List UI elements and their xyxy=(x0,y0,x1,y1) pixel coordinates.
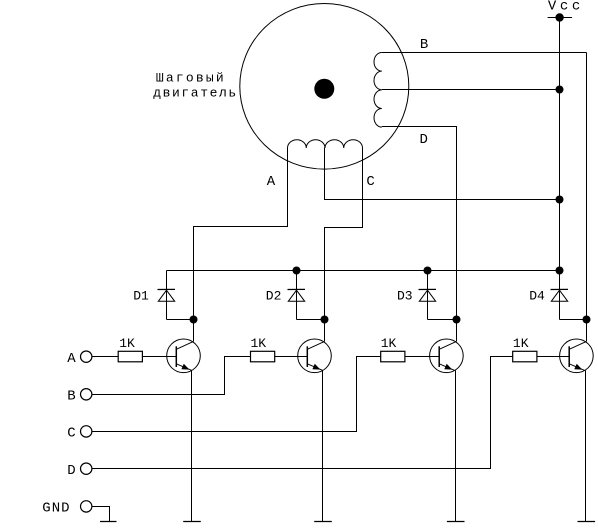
resistor R3 xyxy=(381,351,405,362)
transistor Q1 xyxy=(167,339,201,373)
svg-text:D: D xyxy=(67,463,75,479)
wire: Q4 emitter to ground xyxy=(585,370,587,521)
wire: R4 to Q4 base xyxy=(537,356,569,358)
svg-text:C: C xyxy=(67,426,75,442)
diode D2 xyxy=(288,271,306,320)
svg-text:A: A xyxy=(67,351,76,367)
wire: Vcc rail over diodes xyxy=(167,270,560,272)
wire: R1 to Q1 base xyxy=(142,356,176,358)
svg-text:1K: 1K xyxy=(513,336,529,351)
Vcc terminal bar xyxy=(548,17,573,19)
resistor R1 xyxy=(118,351,142,362)
wire: L1 top end to node B line xyxy=(382,52,587,54)
wire: D3 anode to Q3 collector xyxy=(428,319,457,321)
input terminal GND xyxy=(81,501,92,512)
diode D3 xyxy=(419,271,437,320)
svg-text:D2: D2 xyxy=(266,289,282,304)
resistor R4 xyxy=(513,351,537,362)
svg-text:C: C xyxy=(366,174,374,190)
winding L1 coil (B-D phase) xyxy=(374,53,382,128)
svg-text:B: B xyxy=(420,37,428,53)
wire: L2 center tap to Vcc line xyxy=(325,148,560,200)
ground bar Q4 xyxy=(578,521,596,523)
svg-text:D3: D3 xyxy=(397,289,413,304)
svg-text:Шаговый: Шаговый xyxy=(156,71,226,86)
ground bar Q2 xyxy=(314,521,332,523)
transistor Q2 xyxy=(298,339,332,373)
wire: L2 left end node A to Q1 collector xyxy=(194,148,288,341)
ground symbol at GND xyxy=(100,521,117,523)
svg-text:GND: GND xyxy=(42,500,70,516)
svg-text:Vcc: Vcc xyxy=(548,0,584,14)
input terminal C xyxy=(81,426,92,437)
junction dot: D2 cathode on rail xyxy=(293,267,301,275)
input terminal B xyxy=(81,389,92,400)
transistor Q3 xyxy=(430,339,464,373)
wire: L1 bottom end node D xyxy=(382,127,457,342)
svg-text:B: B xyxy=(67,388,75,404)
wire: R3 to Q3 base xyxy=(405,356,439,358)
wire: terminal C to R3 xyxy=(92,357,381,432)
svg-text:1K: 1K xyxy=(381,336,397,351)
wire: L1 center tap to Vcc rail xyxy=(382,89,560,91)
diode D4 xyxy=(551,271,569,320)
junction dot: L2 tap on Vcc line xyxy=(556,196,564,204)
wire: Q3 emitter to ground xyxy=(455,370,457,521)
wire: D2 anode to Q2 collector xyxy=(297,319,325,321)
diode D1 xyxy=(158,271,176,320)
wire: Vcc vertical feed xyxy=(559,18,561,271)
wire: terminal B to R2 xyxy=(92,357,251,395)
motor label "Шаговый двигатель" xyxy=(153,71,238,101)
junction dot: D2 anode / Q2 collector xyxy=(321,316,329,324)
junction dot: D3 cathode on rail xyxy=(424,267,432,275)
transistor Q4 xyxy=(560,339,594,373)
wire: D4 anode to Q4 collector xyxy=(560,319,587,321)
wire: node B down right side to Q4 collector xyxy=(586,53,588,342)
wire: Q1 emitter to ground xyxy=(191,370,193,521)
junction dot: rail end at Vcc line / D4 xyxy=(556,267,564,275)
Vcc terminal dot xyxy=(555,13,563,21)
svg-text:A: A xyxy=(267,174,276,190)
wire: terminal D to R4 xyxy=(92,357,513,469)
junction dot: D4 anode / Q4 collector xyxy=(583,316,591,324)
winding L2 coil (A-C phase) xyxy=(288,140,363,148)
wire: R2 to Q2 base xyxy=(275,356,308,358)
junction dot: D3 anode / Q3 collector xyxy=(453,316,461,324)
svg-text:D4: D4 xyxy=(529,289,545,304)
input terminal A xyxy=(81,351,92,362)
wire: L2 right end node C to Q2 collector xyxy=(325,148,363,341)
svg-text:D: D xyxy=(420,132,428,148)
wire: terminal A to R1 xyxy=(92,356,118,358)
motor M1 body circle xyxy=(240,4,409,170)
input terminal D xyxy=(81,463,92,474)
wire: GND terminal to ground xyxy=(92,507,110,522)
ground bar Q3 xyxy=(447,521,465,523)
wire: Q2 emitter to ground xyxy=(322,370,324,521)
motor M1 rotor dot xyxy=(314,79,334,99)
svg-text:1K: 1K xyxy=(119,336,135,351)
wire: D1 anode to Q1 collector xyxy=(167,319,194,321)
junction dot: D1 anode / Q1 collector xyxy=(190,316,198,324)
ground bar Q1 xyxy=(183,521,201,523)
svg-text:D1: D1 xyxy=(133,289,149,304)
junction dot: L1 tap on Vcc line xyxy=(556,86,564,94)
svg-text:двигатель: двигатель xyxy=(153,85,238,100)
svg-text:1K: 1K xyxy=(251,336,267,351)
resistor R2 xyxy=(251,351,275,362)
